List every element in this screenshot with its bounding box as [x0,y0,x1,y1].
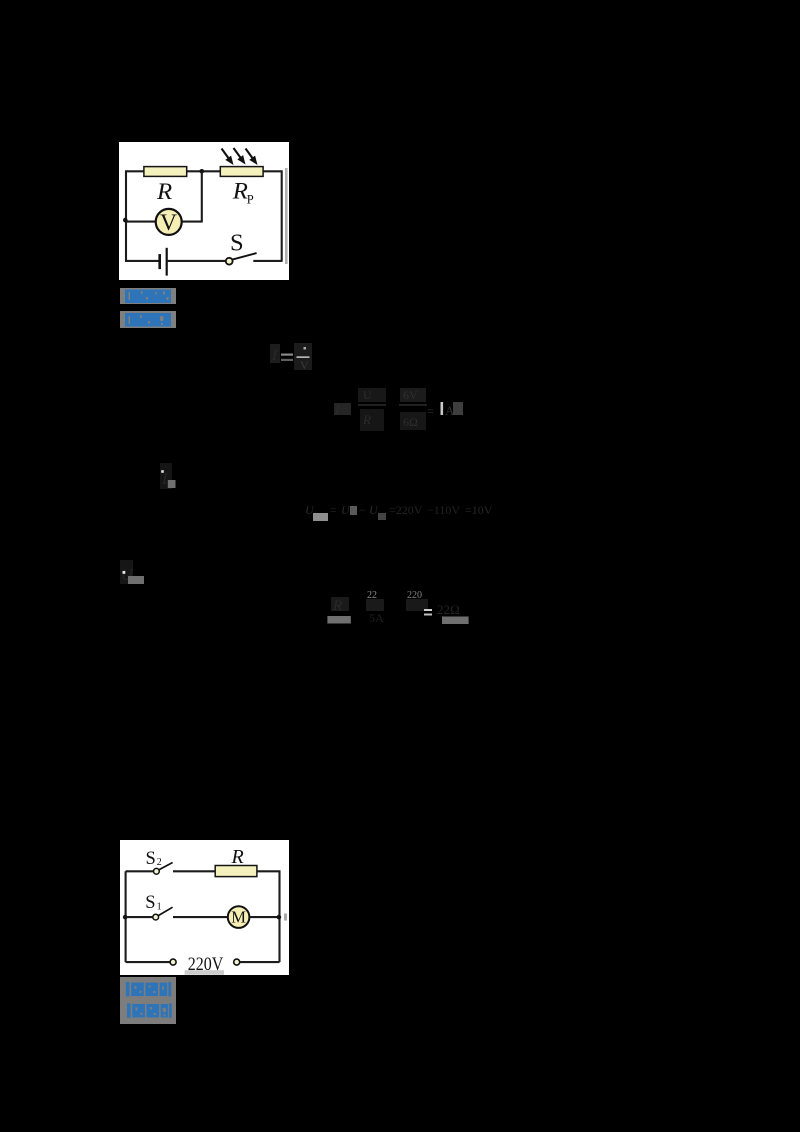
photoresistor RP [220,167,263,177]
node dot left [123,218,128,223]
panel background [120,840,289,975]
svg-text:6V: 6V [403,388,418,402]
wire top-left [126,171,144,221]
svg-text:−110V: −110V [427,503,460,517]
svg-text:6Ω: 6Ω [403,415,418,429]
node dot top [200,169,205,174]
gray smudge under 220V [184,970,223,975]
wire voltmeter row [126,221,155,223]
svg-text:S: S [145,848,155,868]
wire RP to right [263,171,282,261]
svg-text:=10V: =10V [465,503,493,517]
svg-text:U: U [369,503,379,517]
svg-text:1: 1 [156,901,161,912]
svg-text:−: − [359,503,366,517]
svg-text:P: P [247,192,254,206]
svg-text:M: M [231,907,246,926]
voltmeter V [156,209,182,235]
bottom wire right [240,961,280,963]
svg-text:R: R [362,412,371,427]
wire R to right [257,871,280,962]
svg-text:I: I [271,348,278,364]
wire to S2 [125,870,153,872]
svg-text:22Ω: 22Ω [437,602,460,617]
wire R to node [187,170,221,172]
wire bottom-left [126,222,159,261]
svg-text:2: 2 [157,857,162,868]
svg-text:=: = [342,403,349,417]
node dot right middle [276,914,281,919]
battery [158,254,161,269]
resistor R [144,167,187,177]
motor M [228,906,250,928]
wire M to right [249,916,279,918]
svg-text:220V: 220V [188,952,224,974]
svg-text:=220V: =220V [389,503,423,517]
panel background [119,142,289,280]
svg-text:V: V [300,358,309,372]
switch S1 [153,914,159,920]
light arrows [222,148,258,165]
svg-text:S: S [230,230,244,257]
svg-text:R: R [230,846,243,868]
terminal 1 [170,959,176,965]
bottom wire left [125,961,169,963]
svg-text:U: U [341,503,351,517]
svg-text:S: S [145,893,155,913]
wire to S1 [125,916,152,918]
svg-text:U: U [363,388,372,402]
terminal 2 [233,959,239,965]
svg-text:I: I [161,471,168,488]
wire battery to switch [167,260,226,262]
wire S1 to M [173,916,228,918]
svg-text:=: = [427,404,434,418]
switch S [226,258,233,265]
gray scan bar right edge [285,168,288,264]
node dot left middle [123,914,128,919]
svg-text:5A: 5A [369,611,384,625]
left vertical wire [124,871,126,962]
svg-text:R: R [332,598,342,614]
svg-text:R: R [156,180,173,205]
resistor R [215,865,257,876]
svg-text:V: V [160,210,177,236]
switch S2 [153,868,159,874]
gray artifact right [284,913,287,920]
wire S2 to R [173,870,215,872]
svg-text:=: = [330,503,337,517]
